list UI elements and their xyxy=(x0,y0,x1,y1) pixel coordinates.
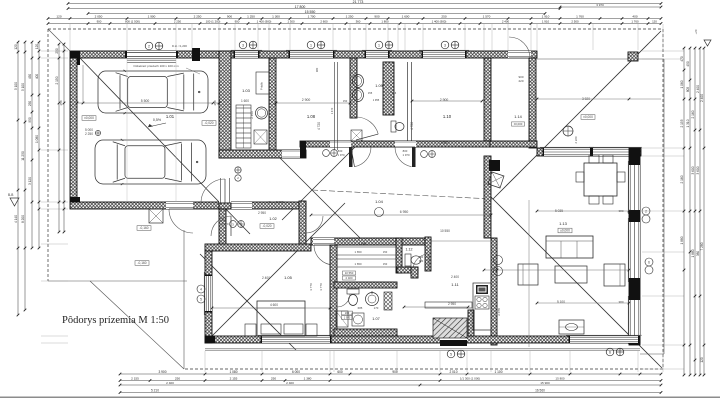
dim right chain B xyxy=(689,48,691,375)
svg-text:2 500: 2 500 xyxy=(571,20,579,24)
sink 1.09 b xyxy=(353,89,364,102)
svg-text:1 800: 1 800 xyxy=(381,20,389,24)
svg-text:1 060: 1 060 xyxy=(680,80,684,88)
garage height dim xyxy=(82,65,84,103)
svg-text:2 950: 2 950 xyxy=(258,211,266,215)
dim bottom chain A xyxy=(120,373,661,375)
svg-text:1.02: 1.02 xyxy=(269,217,276,221)
wall kitchen stairs xyxy=(468,310,474,336)
svg-text:5 500: 5 500 xyxy=(141,99,150,103)
svg-text:1 910: 1 910 xyxy=(542,15,550,19)
svg-text:1 080: 1 080 xyxy=(35,135,39,143)
svg-text:2 050: 2 050 xyxy=(95,15,103,19)
pillar top-left corner xyxy=(70,51,80,65)
car 1 xyxy=(98,70,208,114)
pillar right wall c xyxy=(629,278,640,300)
svg-text:21 773: 21 773 xyxy=(353,0,364,4)
svg-text:155: 155 xyxy=(368,91,373,95)
right wall circles xyxy=(642,207,650,215)
svg-text:600: 600 xyxy=(337,370,343,374)
wall 1.14 right xyxy=(529,58,536,148)
linen closet xyxy=(256,72,269,94)
wall band bottom right xyxy=(490,141,537,147)
svg-text:2 010: 2 010 xyxy=(450,370,458,374)
svg-text:805: 805 xyxy=(686,87,690,93)
svg-text:250: 250 xyxy=(55,48,59,54)
roof ridge dashed xyxy=(312,190,493,199)
boiler xyxy=(256,107,268,119)
stairs kitchen xyxy=(433,318,467,338)
svg-text:1.12: 1.12 xyxy=(406,248,413,252)
svg-text:17 800: 17 800 xyxy=(295,5,306,9)
door hall-1.02 xyxy=(228,202,252,209)
svg-text:3: 3 xyxy=(444,43,446,47)
wall 1.08-1.09 xyxy=(350,58,357,118)
dim line 1.10 xyxy=(412,100,482,102)
svg-text:2 400: 2 400 xyxy=(696,85,700,93)
chair bottom a xyxy=(589,196,599,204)
svg-text:1 100: 1 100 xyxy=(495,370,503,374)
svg-text:900: 900 xyxy=(374,15,379,19)
dim bottom row2 xyxy=(120,380,661,382)
wall 1.09-1.10 xyxy=(407,62,409,141)
svg-text:380: 380 xyxy=(315,67,319,72)
svg-text:1 970: 1 970 xyxy=(403,153,410,157)
shower 1.07 xyxy=(336,311,348,327)
window living right 2 xyxy=(629,222,640,278)
dining table xyxy=(584,163,617,196)
svg-text:-0,160: -0,160 xyxy=(139,226,148,230)
window living top 1 xyxy=(544,148,590,156)
svg-text:-0,160: -0,160 xyxy=(137,261,146,265)
svg-text:250: 250 xyxy=(271,376,276,380)
svg-text:5 100: 5 100 xyxy=(557,300,565,304)
svg-text:2 155: 2 155 xyxy=(131,376,139,380)
kitchen sink xyxy=(476,285,488,294)
roof hip top-right xyxy=(493,31,661,199)
dim line 1.08 xyxy=(276,102,350,104)
wall bedroom top xyxy=(205,244,311,251)
dim top right mini xyxy=(560,6,661,8)
window living right 3 xyxy=(629,300,640,340)
roof valley corridor down xyxy=(270,148,360,238)
svg-text:1 310: 1 310 xyxy=(686,119,690,127)
svg-text:6 000: 6 000 xyxy=(292,370,300,374)
svg-text:Pôdorys prízemia M 1:50: Pôdorys prízemia M 1:50 xyxy=(62,315,169,326)
extension lines top xyxy=(69,24,71,50)
svg-text:1 300: 1 300 xyxy=(272,15,280,19)
door opening 1.14 top xyxy=(508,51,531,58)
svg-text:1: 1 xyxy=(310,43,312,47)
svg-text:1 760: 1 760 xyxy=(576,15,584,19)
dim right chain C xyxy=(694,48,696,375)
svg-text:380: 380 xyxy=(618,300,623,304)
window top 2 xyxy=(290,51,333,58)
svg-text:2 155: 2 155 xyxy=(230,376,238,380)
threshold black xyxy=(440,340,467,346)
svg-text:2 400: 2 400 xyxy=(451,275,459,279)
tv bench xyxy=(559,320,584,334)
dim bottom row3 xyxy=(120,384,661,386)
section triangle left xyxy=(10,198,19,206)
wall garage-house lower xyxy=(219,203,231,209)
svg-text:15 800: 15 800 xyxy=(555,376,565,380)
svg-text:2 250: 2 250 xyxy=(174,20,182,24)
dim left chain A xyxy=(17,42,19,315)
fireplace xyxy=(489,160,500,171)
svg-text:250: 250 xyxy=(28,101,32,107)
extension lines bottom xyxy=(204,351,206,372)
svg-text:1.06: 1.06 xyxy=(358,242,365,246)
corridor circle xyxy=(375,208,384,217)
wall 1.02 right xyxy=(299,201,306,245)
wall 1.12 right xyxy=(425,237,431,271)
svg-text:1 600: 1 600 xyxy=(402,15,410,19)
door 1.02 right xyxy=(306,216,323,233)
svg-text:2 250: 2 250 xyxy=(85,132,93,136)
kitchen dim line xyxy=(404,306,468,308)
door 1.09 xyxy=(356,117,378,134)
roof diagonal garage xyxy=(78,56,250,234)
svg-text:2 900: 2 900 xyxy=(440,141,448,145)
svg-text:7 280: 7 280 xyxy=(700,242,704,250)
svg-text:2 400: 2 400 xyxy=(286,381,294,385)
stairs basement xyxy=(236,105,251,148)
kitchen stove xyxy=(475,296,489,309)
wall 1.10-1.14 xyxy=(484,58,491,141)
svg-text:3 600: 3 600 xyxy=(691,166,695,174)
wall living right xyxy=(629,148,640,345)
window bedroom left xyxy=(205,276,212,311)
door bedroom top xyxy=(313,238,334,245)
svg-text:1 955: 1 955 xyxy=(373,98,380,102)
wall 1.06-1.12 xyxy=(396,238,402,273)
wall 1.07 bottom xyxy=(334,329,397,336)
toilet 1.07 xyxy=(347,289,359,294)
roof diagonal bedroom down xyxy=(200,254,296,350)
dim left chain D xyxy=(38,42,40,248)
extension lines left xyxy=(41,50,68,52)
bed 1.05 xyxy=(257,301,305,336)
markers corridor xyxy=(323,150,330,157)
svg-text:470: 470 xyxy=(680,56,684,62)
svg-text:S.v. +2,600: S.v. +2,600 xyxy=(268,200,283,204)
extension lines right xyxy=(642,50,684,52)
svg-text:2 078: 2 078 xyxy=(497,308,501,316)
svg-text:4: 4 xyxy=(200,287,202,291)
wall 1.02 left xyxy=(219,209,226,244)
svg-text:2 450: 2 450 xyxy=(250,111,254,119)
svg-text:3: 3 xyxy=(242,43,244,47)
svg-text:3 600: 3 600 xyxy=(696,166,700,174)
dim top chain B xyxy=(48,23,661,25)
svg-text:B-B: B-B xyxy=(8,193,13,197)
markers 1.02 xyxy=(230,221,237,228)
pillar right wall d xyxy=(629,340,640,345)
junction pillar hall xyxy=(300,141,306,158)
chimney garage xyxy=(149,209,163,223)
svg-text:1 910: 1 910 xyxy=(542,20,550,24)
svg-text:250: 250 xyxy=(175,376,180,380)
svg-text:-0,020: -0,020 xyxy=(204,121,213,125)
living columns markers xyxy=(494,256,503,265)
svg-text:±0,000: ±0,000 xyxy=(514,122,523,126)
nightstand right xyxy=(306,324,317,336)
svg-text:5 100: 5 100 xyxy=(14,82,18,90)
svg-text:2 900: 2 900 xyxy=(302,98,311,102)
svg-text:1.09: 1.09 xyxy=(375,84,382,88)
svg-text:5 100: 5 100 xyxy=(21,83,25,91)
svg-text:100 (1 200): 100 (1 200) xyxy=(206,20,221,24)
paving outline bottom-left xyxy=(48,280,187,282)
svg-text:450: 450 xyxy=(686,61,690,67)
wall 1.12 bottom xyxy=(397,267,418,273)
window top 1 xyxy=(235,51,258,58)
svg-text:4 720: 4 720 xyxy=(317,122,321,130)
svg-text:120: 120 xyxy=(700,357,704,363)
svg-text:900: 900 xyxy=(419,259,424,263)
chair left xyxy=(576,172,584,182)
window top 3 xyxy=(366,51,388,58)
window bedroom bottom xyxy=(262,336,330,343)
dim left inner chain E xyxy=(58,44,60,232)
svg-text:15 550: 15 550 xyxy=(305,10,316,14)
dim right chain A xyxy=(683,48,685,375)
pillar right wall b xyxy=(629,210,640,222)
dim left chain C xyxy=(31,42,33,248)
svg-text:120: 120 xyxy=(35,44,39,50)
wall corridor-kitchen left xyxy=(484,156,491,238)
svg-text:950: 950 xyxy=(28,117,32,123)
svg-text:685: 685 xyxy=(358,306,363,310)
wall garage-house xyxy=(219,51,231,158)
svg-text:1 970: 1 970 xyxy=(338,153,345,157)
dim top chain A xyxy=(48,18,661,20)
svg-text:2 150: 2 150 xyxy=(55,76,59,84)
hall appliance xyxy=(254,130,267,144)
svg-text:400: 400 xyxy=(632,15,637,19)
door 1.08 bottom xyxy=(330,141,351,147)
svg-text:4 720: 4 720 xyxy=(410,122,414,130)
armchair left xyxy=(518,264,538,285)
chair bottom b xyxy=(603,196,613,204)
svg-text:900: 900 xyxy=(97,20,102,24)
pillar right wall a xyxy=(629,148,640,165)
terrace outline right xyxy=(537,58,664,60)
svg-text:2 400: 2 400 xyxy=(166,381,174,385)
svg-text:4 600: 4 600 xyxy=(270,303,278,307)
washer 1.07 xyxy=(352,313,364,326)
roof hip top-left xyxy=(48,29,70,51)
chair right xyxy=(617,172,625,182)
svg-text:5: 5 xyxy=(450,352,452,356)
svg-text:1 650: 1 650 xyxy=(355,262,362,266)
svg-text:2 160: 2 160 xyxy=(680,175,684,183)
roof outline dashed xyxy=(48,29,663,369)
pantry nook wall xyxy=(411,267,418,278)
svg-text:6 950: 6 950 xyxy=(400,210,409,214)
svg-text:1 080: 1 080 xyxy=(230,370,238,374)
svg-text:6: 6 xyxy=(648,260,650,264)
dim right chain E xyxy=(703,48,705,375)
door kitchen bottom xyxy=(440,336,467,343)
svg-text:2 400: 2 400 xyxy=(262,276,270,280)
roof valley corridor up xyxy=(282,140,362,220)
dim left inner chain F xyxy=(63,44,65,232)
kitchen counter bottom xyxy=(425,302,472,308)
svg-text:150: 150 xyxy=(343,99,348,103)
svg-text:5: 5 xyxy=(200,297,202,301)
svg-text:2 900: 2 900 xyxy=(440,98,449,102)
svg-text:Odvetrací prieduch 100 x 100 m: Odvetrací prieduch 100 x 100 mm xyxy=(133,64,179,68)
wall hall bottom xyxy=(219,150,306,158)
svg-text:11 250: 11 250 xyxy=(21,151,25,161)
svg-text:3 770: 3 770 xyxy=(319,283,323,291)
svg-text:2: 2 xyxy=(148,44,150,48)
door 1.07 xyxy=(337,294,350,307)
svg-text:886: 886 xyxy=(392,91,397,95)
opening hall-corridor xyxy=(282,150,300,158)
door 1.12 xyxy=(413,254,429,270)
wall hall-1.08 xyxy=(269,58,276,150)
svg-text:3 770: 3 770 xyxy=(309,283,313,291)
svg-text:1.03: 1.03 xyxy=(242,88,251,93)
nightstand left xyxy=(245,324,256,336)
svg-text:2 950: 2 950 xyxy=(448,302,456,306)
svg-text:3 900: 3 900 xyxy=(159,370,167,374)
paving label b xyxy=(135,261,149,266)
svg-text:250: 250 xyxy=(441,15,446,19)
dim bottom row4 xyxy=(120,392,661,394)
svg-text:800 (1 500): 800 (1 500) xyxy=(125,20,140,24)
markers bottom xyxy=(447,350,455,358)
sink 1.09 a xyxy=(353,75,364,88)
svg-text:2 270: 2 270 xyxy=(222,222,229,226)
svg-text:1.05: 1.05 xyxy=(284,275,293,280)
shower 1.09 xyxy=(351,130,362,141)
svg-text:1 300: 1 300 xyxy=(287,20,295,24)
kitchen opening edge line xyxy=(431,240,491,242)
dim top row1 xyxy=(68,3,661,5)
wall 1.05-1.06 xyxy=(330,245,337,336)
svg-text:1.01: 1.01 xyxy=(166,114,175,119)
svg-text:1 400 (900): 1 400 (900) xyxy=(257,20,272,24)
svg-text:10 550: 10 550 xyxy=(345,271,354,275)
wall kitchen-living xyxy=(491,238,497,345)
garage door sill xyxy=(127,59,176,61)
svg-text:2 400: 2 400 xyxy=(700,94,704,102)
wall bottom-band left xyxy=(205,251,212,343)
svg-text:4 140: 4 140 xyxy=(14,215,18,223)
door garage-hall xyxy=(219,178,231,203)
wall 1.06-1.07 xyxy=(334,282,397,288)
sofa xyxy=(546,236,593,258)
wall garage bottom xyxy=(70,202,306,209)
svg-text:2 160: 2 160 xyxy=(691,110,695,118)
garage width dim xyxy=(77,102,219,104)
closet rails 1.06 xyxy=(337,247,396,255)
svg-text:2 155: 2 155 xyxy=(680,119,684,127)
coffee table xyxy=(555,266,587,283)
svg-text:-0,020: -0,020 xyxy=(262,224,271,228)
svg-text:1 470: 1 470 xyxy=(330,107,334,114)
window living bottom xyxy=(570,336,638,343)
svg-text:0,5%: 0,5% xyxy=(153,118,162,122)
markers bottom left pair xyxy=(197,285,205,293)
svg-text:±0,000: ±0,000 xyxy=(560,229,570,233)
svg-text:1.14: 1.14 xyxy=(514,115,521,119)
terrace corner pillar xyxy=(628,52,638,61)
corridor dim line xyxy=(311,214,491,216)
svg-text:200: 200 xyxy=(345,311,350,315)
svg-text:120: 120 xyxy=(14,44,18,50)
svg-text:900: 900 xyxy=(227,15,232,19)
svg-text:1 760: 1 760 xyxy=(631,20,639,24)
svg-text:1.11: 1.11 xyxy=(451,282,459,287)
svg-text:6: 6 xyxy=(609,350,611,354)
svg-text:1 380: 1 380 xyxy=(304,376,312,380)
svg-text:1 900: 1 900 xyxy=(148,15,156,19)
car 2 xyxy=(95,139,206,185)
closet partition 1.08 xyxy=(334,62,336,150)
door garage-yard xyxy=(166,202,193,209)
door 1.02 left xyxy=(211,216,231,236)
svg-text:1 880: 1 880 xyxy=(691,249,695,257)
toilet 1.12 xyxy=(405,254,411,266)
svg-text:15 900: 15 900 xyxy=(540,381,550,385)
wall top exterior xyxy=(70,51,537,58)
svg-text:1.04: 1.04 xyxy=(375,199,384,204)
roof hip bottom-right xyxy=(490,196,662,368)
svg-text:2 400: 2 400 xyxy=(346,276,353,280)
chair top a xyxy=(589,155,599,163)
svg-text:170: 170 xyxy=(374,306,379,310)
svg-text:2: 2 xyxy=(645,209,647,213)
svg-text:10 550: 10 550 xyxy=(440,229,450,233)
terrace circle xyxy=(563,126,573,136)
svg-text:450: 450 xyxy=(28,74,32,80)
garage door opening xyxy=(127,51,176,58)
svg-text:5 210: 5 210 xyxy=(151,389,159,393)
svg-text:±0,000: ±0,000 xyxy=(84,116,94,120)
armchair right xyxy=(604,264,625,286)
garage slope arrow xyxy=(148,123,166,127)
svg-text:Prádlo: Prádlo xyxy=(260,82,264,91)
wall corridor bottom xyxy=(311,238,431,245)
dim right chain D xyxy=(699,48,701,375)
shaft wall 1.09 xyxy=(383,62,394,115)
door 1.10 bottom xyxy=(395,141,416,147)
pillar top middle xyxy=(192,48,200,61)
svg-text:1 700: 1 700 xyxy=(308,15,316,19)
paving label a xyxy=(137,226,151,231)
svg-text:1 970: 1 970 xyxy=(344,316,351,320)
svg-text:900: 900 xyxy=(392,370,398,374)
bedroom dim line xyxy=(212,307,330,309)
svg-text:150: 150 xyxy=(383,250,388,254)
svg-text:1.07: 1.07 xyxy=(372,317,379,321)
living dim lines xyxy=(537,210,629,212)
svg-text:8 200: 8 200 xyxy=(21,215,25,223)
svg-text:1 570: 1 570 xyxy=(483,15,491,19)
pillar bottom-left garage xyxy=(70,197,80,209)
pillar house bottom-left xyxy=(205,336,215,343)
wall living top xyxy=(537,148,641,156)
wall house bottom xyxy=(205,336,640,343)
svg-text:2 600: 2 600 xyxy=(320,20,328,24)
svg-text:1.10: 1.10 xyxy=(443,114,452,119)
svg-text:2 250: 2 250 xyxy=(194,15,202,19)
